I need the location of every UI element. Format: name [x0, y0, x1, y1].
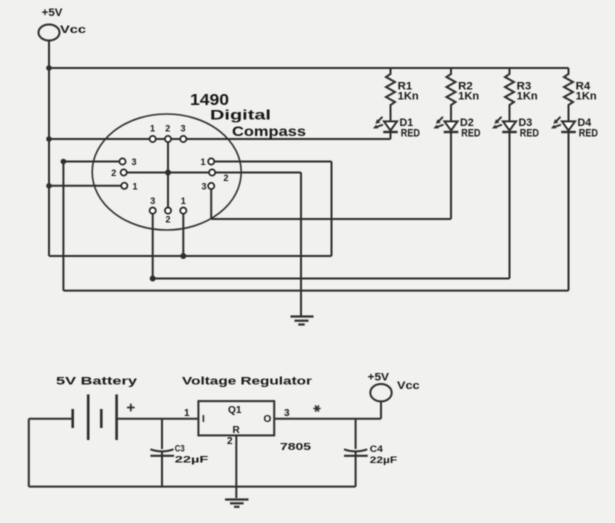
svg-text:RED: RED: [579, 128, 598, 140]
svg-text:1: 1: [181, 196, 186, 206]
svg-text:1: 1: [184, 408, 190, 419]
svg-text:I: I: [202, 414, 205, 425]
svg-text:Compass: Compass: [232, 124, 306, 139]
svg-text:1Kn: 1Kn: [458, 91, 479, 103]
svg-text:22µF: 22µF: [175, 455, 209, 466]
svg-text:1Kn: 1Kn: [398, 91, 419, 103]
svg-text:3: 3: [284, 408, 290, 419]
svg-text:5V Battery: 5V Battery: [56, 376, 138, 388]
svg-text:RED: RED: [461, 128, 480, 140]
svg-text:+5V: +5V: [368, 372, 390, 384]
svg-text:3: 3: [201, 182, 206, 192]
svg-text:Vcc: Vcc: [60, 24, 86, 36]
svg-text:3: 3: [180, 124, 185, 134]
svg-text:2: 2: [223, 173, 228, 183]
svg-text:1490: 1490: [190, 92, 229, 109]
svg-text:22µF: 22µF: [370, 455, 398, 466]
svg-text:1: 1: [200, 157, 205, 167]
svg-text:+5V: +5V: [42, 7, 63, 19]
svg-text:C3: C3: [175, 443, 185, 454]
svg-text:Digital: Digital: [210, 108, 271, 123]
svg-text:2: 2: [227, 436, 233, 447]
svg-text:C4: C4: [370, 444, 384, 455]
svg-text:1Kn: 1Kn: [517, 91, 538, 103]
svg-text:1Kn: 1Kn: [576, 91, 597, 103]
svg-text:3: 3: [150, 196, 155, 206]
svg-text:RED: RED: [401, 128, 420, 140]
svg-text:1: 1: [132, 181, 137, 191]
svg-text:R: R: [233, 425, 241, 436]
svg-text:3: 3: [131, 157, 136, 167]
svg-text:2: 2: [165, 124, 170, 134]
svg-text:RED: RED: [520, 128, 539, 140]
svg-text:1: 1: [150, 124, 155, 134]
svg-text:Voltage Regulator: Voltage Regulator: [182, 376, 313, 388]
svg-text:O: O: [264, 414, 272, 425]
svg-text:2: 2: [111, 168, 116, 178]
svg-text:2: 2: [165, 215, 170, 225]
svg-text:Vcc: Vcc: [397, 380, 420, 392]
svg-text:Q1: Q1: [228, 405, 242, 416]
svg-text:7805: 7805: [280, 442, 312, 453]
